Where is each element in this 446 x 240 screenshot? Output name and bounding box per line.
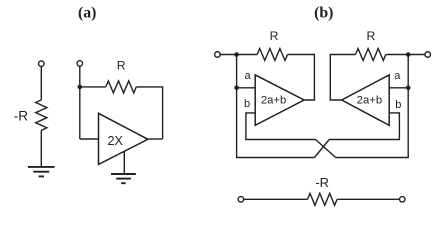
svg-text:(b): (b): [314, 5, 333, 22]
terminal (left port of (b)): [215, 52, 221, 58]
wire node to feedback resistor R: [80, 86, 106, 88]
svg-text:2a+b: 2a+b: [357, 94, 382, 106]
svg-text:R: R: [117, 59, 126, 73]
wire right feedback corner down to amp output: [330, 55, 355, 101]
wire terminal to resistor -R: [40, 67, 42, 100]
wire input b stub of left amp to upper rail: [246, 113, 316, 140]
resistor -R (equivalent floating): [308, 193, 338, 205]
wire output to feedback: [148, 138, 163, 140]
wire cross X (left upper rail to right lower rail): [316, 140, 336, 158]
resistor -R (vertical zigzag): [36, 100, 47, 130]
wire left feedback corner down to amp output: [288, 55, 315, 101]
svg-text:R: R: [270, 29, 279, 43]
wire input a to right amp: [389, 87, 408, 89]
svg-text:2X: 2X: [108, 134, 124, 148]
terminal (left of equivalent -R): [238, 197, 244, 203]
svg-text:-R: -R: [14, 108, 29, 123]
resistor R (feedback of (a)): [106, 81, 137, 93]
wire resistor -R to ground: [40, 130, 42, 166]
wire cross X (right upper rail to left lower rail): [315, 140, 330, 158]
terminal (input of NIC): [77, 61, 83, 67]
node (left amp input a junction): [234, 86, 239, 91]
resistor R (right feedback of (b)): [356, 49, 386, 61]
wire right terminal to feedback resistor: [386, 54, 425, 56]
wire left vertical from terminal node to lower rail: [237, 55, 315, 158]
wire left terminal to feedback resistor: [221, 54, 258, 56]
wire amplifier to ground: [123, 151, 125, 173]
wire input b stub of right amp to upper rail: [329, 113, 399, 140]
svg-text:R: R: [366, 29, 375, 43]
wire input node to amplifier: [80, 138, 99, 140]
node (right amp input a junction): [406, 86, 411, 91]
op-amp U1 (gain 2X amplifier): [99, 113, 148, 164]
svg-text:b: b: [244, 98, 250, 110]
node (right top junction): [406, 52, 411, 57]
terminal (right of equivalent -R): [400, 197, 406, 203]
op-amp U2 (left 2a+b amplifier): [255, 75, 304, 125]
svg-text:-R: -R: [315, 175, 329, 190]
wire left terminal to resistor -R: [244, 198, 308, 200]
svg-text:a: a: [245, 70, 252, 82]
svg-text:(a): (a): [78, 5, 96, 22]
ground (amplifier of (a)): [111, 174, 136, 183]
terminal (top of -R branch): [39, 61, 45, 66]
wire input a to left amp: [237, 87, 256, 89]
node A (junction dot): [78, 85, 83, 90]
svg-text:2a+b: 2a+b: [261, 94, 286, 106]
ground (left branch): [28, 167, 55, 177]
terminal (right port of (b)): [425, 52, 431, 58]
wire terminal down to input node: [79, 67, 81, 140]
node (left top junction): [234, 52, 239, 57]
svg-text:a: a: [394, 70, 401, 82]
wire right vertical from terminal node to lower rail: [336, 55, 409, 158]
op-amp U3 (right 2a+b amplifier): [342, 75, 390, 125]
resistor R (left feedback of (b)): [257, 49, 287, 61]
wire resistor -R to right terminal: [337, 198, 399, 200]
svg-text:b: b: [395, 99, 401, 111]
wire resistor R to right corner: [136, 87, 162, 139]
